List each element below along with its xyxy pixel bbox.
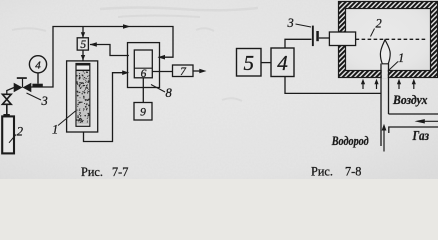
- box 7 (recorder): [173, 65, 194, 78]
- svg-text:1: 1: [52, 123, 58, 137]
- wire: carrier-gas main line riser and top run to detector: [31, 27, 173, 88]
- label 2 leader (right): [371, 17, 382, 37]
- caption Рис. 7-7: [81, 165, 128, 179]
- wire box4 top to battery: [285, 39, 312, 48]
- box 5 (right, power unit): [237, 49, 262, 77]
- wire: from detector reference out to box 5: [90, 45, 129, 56]
- air arrows: [361, 79, 416, 89]
- valve 3 (pressure regulator with handle): [14, 77, 32, 92]
- svg-text:9: 9: [140, 107, 146, 119]
- svg-text:6: 6: [141, 68, 147, 80]
- wire arrow into detector reference cell: [158, 55, 166, 60]
- wire: column outlet to detector measuring cell: [84, 73, 123, 142]
- electrode feedthrough box: [329, 32, 355, 46]
- faint bleed-through scan texture: [12, 8, 258, 102]
- svg-text:Рис.: Рис.: [81, 165, 103, 179]
- cylinder collar: [3, 114, 9, 117]
- svg-text:Газ: Газ: [412, 128, 429, 143]
- cylinder shut-off valve: [2, 94, 11, 114]
- svg-text:2: 2: [376, 17, 382, 31]
- svg-text:7-8: 7-8: [345, 165, 361, 179]
- svg-text:5: 5: [80, 39, 86, 51]
- label 1 leader: [52, 111, 76, 137]
- wire box5-box4: [261, 62, 271, 64]
- svg-text:3: 3: [287, 16, 294, 30]
- column tube 1 with packing: [76, 63, 90, 126]
- page background: [0, 0, 438, 179]
- box 4 (right, amplifier): [271, 48, 294, 77]
- wire: recorder output arrow: [193, 70, 201, 72]
- gauge 4 (manometer): [29, 56, 46, 87]
- wire: detector to power box 9: [142, 78, 144, 103]
- flame 1: [380, 40, 390, 64]
- battery 3: [312, 26, 319, 46]
- wire: box 5 down into column: [82, 50, 84, 61]
- svg-text:4: 4: [277, 51, 288, 75]
- label Водород: [331, 133, 369, 148]
- cylinder 2 (gas bottle): [2, 116, 14, 153]
- svg-text:7-7: 7-7: [112, 165, 128, 179]
- furnace chamber hatched walls: [339, 2, 438, 79]
- svg-text:2: 2: [17, 125, 23, 139]
- burner jet tube: [381, 64, 389, 147]
- wire battery to electrode box: [319, 37, 330, 39]
- label Газ: [412, 128, 429, 143]
- svg-text:Водород: Водород: [331, 133, 369, 148]
- label 2 leader: [9, 125, 23, 143]
- svg-text:3: 3: [41, 94, 48, 108]
- svg-text:8: 8: [166, 86, 173, 100]
- wire: branch into regulator box 5: [82, 27, 84, 38]
- label 1 leader (right): [389, 51, 404, 70]
- box 5 (flow regulator): [77, 38, 88, 51]
- detector thermostat outer box 8: [128, 43, 160, 88]
- label 3 leader: [27, 93, 48, 108]
- pipe from cylinder valve to regulator: [7, 88, 14, 95]
- electrode dashed line 2: [356, 38, 427, 40]
- label Воздух: [392, 92, 428, 107]
- column outer jacket: [67, 61, 98, 132]
- gas arrow: [415, 119, 438, 123]
- gas inlet channel: [389, 114, 438, 133]
- caption Рис. 7-8: [311, 165, 361, 179]
- label 3 leader (right): [287, 16, 312, 30]
- svg-text:5: 5: [243, 51, 254, 75]
- wire: detector to recorder box 7: [152, 71, 172, 73]
- electrode wire box4 bottom to jet: [285, 77, 381, 94]
- svg-text:1: 1: [398, 51, 404, 65]
- detector block 6 inner box: [134, 50, 152, 80]
- label 8 leader: [151, 85, 173, 101]
- box 9 (power supply): [134, 103, 152, 121]
- svg-text:Воздух: Воздух: [392, 92, 428, 107]
- hydrogen arrow: [382, 124, 387, 152]
- wire arrow on top run: [123, 24, 131, 29]
- svg-text:4: 4: [35, 59, 41, 71]
- svg-text:Рис.: Рис.: [311, 165, 333, 179]
